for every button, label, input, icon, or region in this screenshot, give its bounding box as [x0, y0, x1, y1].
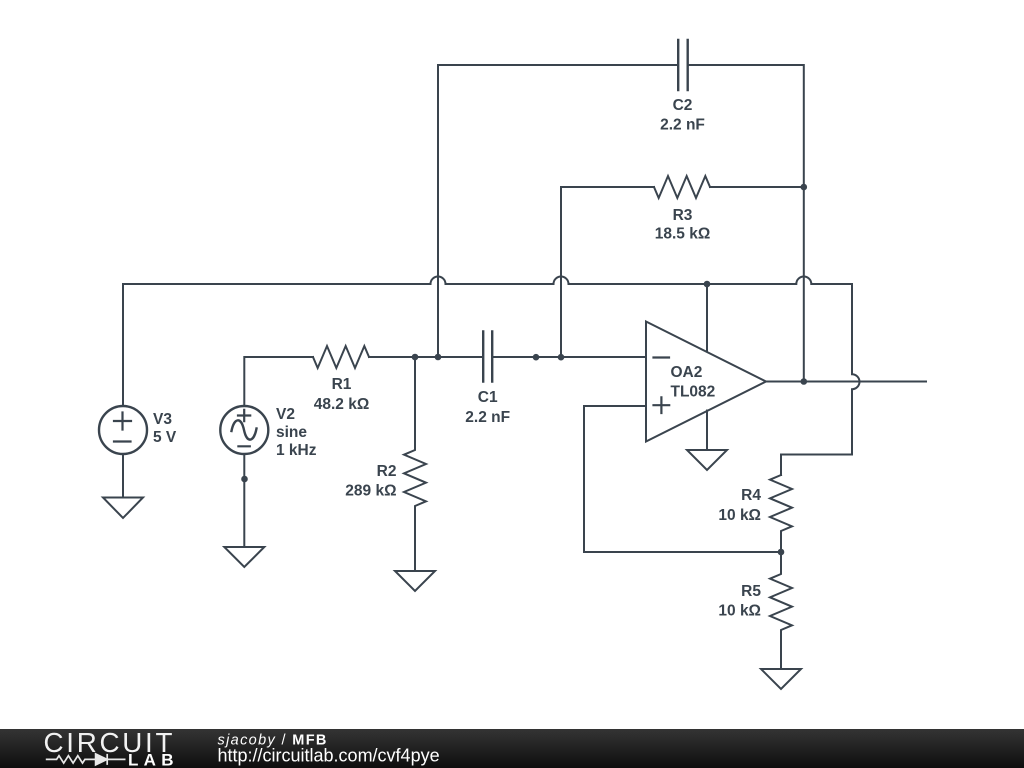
svg-text:OA2: OA2 — [671, 364, 703, 381]
op-amp OA2 body — [646, 322, 766, 442]
svg-text:48.2 kΩ: 48.2 kΩ — [314, 396, 370, 413]
CircuitLab logo resistor-diode squiggle — [46, 754, 126, 765]
voltage source V3 — [99, 406, 147, 454]
svg-text:1 kHz: 1 kHz — [276, 442, 317, 459]
resistor R3 — [654, 176, 710, 198]
svg-text:R2: R2 — [377, 463, 397, 480]
junction on V2 ground wire — [241, 476, 248, 483]
resistor R4 — [770, 475, 792, 552]
wire: R3 left branch down to inverting net — [560, 187, 562, 357]
svg-text:TL082: TL082 — [671, 384, 716, 401]
op-amp plus symbol — [654, 397, 670, 413]
svg-text:C2: C2 — [673, 97, 693, 114]
capacitor C1 — [483, 332, 492, 382]
svg-text:5 V: 5 V — [153, 429, 177, 446]
wire: V3 bottom lead — [122, 454, 124, 498]
junction: C2 loop branch — [435, 354, 442, 361]
junction: terminal dot after C1 — [533, 354, 540, 361]
svg-text:R5: R5 — [741, 583, 761, 600]
ground for V2 — [224, 547, 264, 567]
svg-text:R3: R3 — [673, 207, 693, 224]
wire: C2 right plate right then down to output (feedback) — [689, 65, 804, 382]
resistor R2 — [404, 357, 426, 571]
wire: R1 to C1 left plate — [369, 356, 482, 358]
junction: divider tap — [778, 549, 785, 556]
svg-text:V3: V3 — [153, 411, 172, 428]
svg-text:sine: sine — [276, 424, 307, 441]
wire: V2 top lead up and right to R1 — [244, 357, 313, 406]
wire: R3 left lead — [561, 186, 654, 188]
svg-text:R4: R4 — [741, 487, 761, 504]
svg-text:LAB: LAB — [128, 750, 179, 768]
resistor R1 — [313, 346, 369, 368]
svg-text:2.2 nF: 2.2 nF — [660, 117, 705, 134]
wire: op-amp output — [766, 381, 926, 383]
footer bar — [0, 729, 1024, 768]
junction: R3 right meets feedback — [801, 184, 808, 191]
svg-text:C1: C1 — [478, 389, 498, 406]
ground for R2 — [395, 571, 435, 591]
wire: V+ bus from V3 to right rail with hops at x=438,561,804 and corner to R4 — [123, 277, 860, 476]
op-amp minus symbol — [654, 356, 670, 358]
wire: C1 right plate to op-amp inverting input — [493, 356, 646, 358]
svg-text:http://circuitlab.com/cvf4pye: http://circuitlab.com/cvf4pye — [218, 745, 440, 765]
ground for op-amp — [687, 450, 727, 470]
resistor R5 — [770, 552, 792, 669]
wire: V2 bottom lead — [243, 454, 245, 547]
svg-text:R1: R1 — [332, 376, 352, 393]
wire: op-amp V- pin to ground — [706, 411, 708, 451]
ground for V3 — [103, 498, 143, 519]
junction: R2 branch — [412, 354, 419, 361]
svg-text:2.2 nF: 2.2 nF — [465, 409, 510, 426]
wire: non-inverting input to divider tap — [584, 406, 781, 552]
voltage source V2 (sine) — [220, 406, 268, 454]
ground for R5 — [761, 669, 801, 689]
capacitor C2 — [678, 40, 688, 90]
svg-text:289 kΩ: 289 kΩ — [345, 483, 396, 500]
wire: left branch up to C2 row — [438, 65, 677, 357]
junction: R3 branch on inverting net — [558, 354, 565, 361]
svg-text:10 kΩ: 10 kΩ — [718, 603, 761, 620]
wire: op-amp V+ supply pin to bus — [706, 284, 708, 352]
wire: R3 right lead — [710, 186, 804, 188]
svg-text:10 kΩ: 10 kΩ — [718, 507, 761, 524]
svg-text:18.5 kΩ: 18.5 kΩ — [655, 226, 711, 243]
junction: output feedback node — [801, 378, 808, 385]
wire: V3 top lead — [122, 284, 124, 406]
svg-text:V2: V2 — [276, 406, 295, 423]
junction: V+ pin on bus — [704, 281, 711, 288]
